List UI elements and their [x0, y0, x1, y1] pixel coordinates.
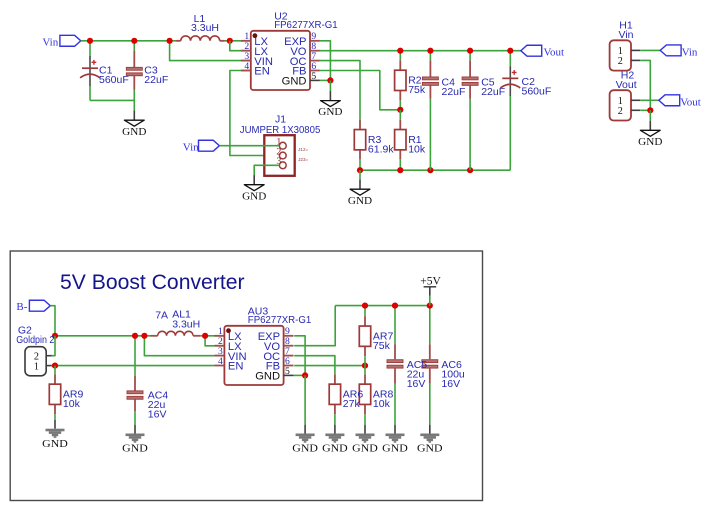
svg-text:560uF: 560uF: [522, 86, 552, 98]
svg-text:75k: 75k: [373, 340, 391, 352]
svg-text:4: 4: [218, 356, 223, 367]
svg-text:2: 2: [618, 106, 623, 117]
svg-text:FP6277XR-G1: FP6277XR-G1: [248, 314, 312, 326]
svg-text:2: 2: [618, 56, 623, 67]
svg-text:B-: B-: [16, 301, 27, 313]
svg-text:16V: 16V: [148, 409, 167, 421]
svg-text:GND: GND: [242, 190, 266, 202]
svg-text:3.3uH: 3.3uH: [172, 319, 200, 331]
svg-text:GND: GND: [122, 126, 146, 138]
svg-text:Vin: Vin: [682, 47, 698, 59]
svg-text:GND: GND: [282, 76, 307, 88]
svg-text:GND: GND: [348, 195, 372, 207]
svg-text:10k: 10k: [373, 398, 391, 410]
svg-text:560uF: 560uF: [99, 74, 129, 86]
svg-text:5: 5: [285, 366, 290, 377]
svg-text:Vin: Vin: [619, 29, 634, 41]
svg-text:4: 4: [244, 61, 249, 72]
svg-text:GND: GND: [292, 443, 318, 455]
svg-text:16V: 16V: [407, 378, 426, 390]
svg-text:Vin: Vin: [183, 141, 199, 153]
svg-text:FP6277XR-G1: FP6277XR-G1: [274, 19, 338, 31]
svg-text:GND: GND: [638, 136, 662, 148]
svg-text:GND: GND: [318, 106, 342, 118]
svg-text:GND: GND: [42, 438, 68, 450]
svg-text:16V: 16V: [441, 378, 460, 390]
svg-text:GND: GND: [122, 443, 148, 455]
svg-text:Vout: Vout: [680, 97, 701, 109]
svg-text:1: 1: [34, 361, 39, 372]
svg-text:GND: GND: [322, 443, 348, 455]
svg-text:10k: 10k: [63, 398, 81, 410]
svg-text:GND: GND: [382, 443, 408, 455]
svg-text:J12=: J12=: [298, 147, 308, 152]
svg-text:22uF: 22uF: [144, 74, 168, 86]
svg-text:10k: 10k: [408, 144, 426, 156]
svg-text:EN: EN: [228, 361, 244, 373]
svg-text:5V Boost Converter: 5V Boost Converter: [60, 271, 245, 294]
svg-text:Vout: Vout: [544, 46, 565, 58]
svg-text:JUMPER 1X30805: JUMPER 1X30805: [240, 124, 321, 136]
svg-text:22uF: 22uF: [442, 86, 466, 98]
svg-text:3.3uH: 3.3uH: [191, 22, 219, 34]
svg-text:61.9k: 61.9k: [368, 144, 394, 156]
svg-text:Vout: Vout: [616, 79, 637, 91]
svg-text:5: 5: [311, 71, 316, 82]
svg-text:27k: 27k: [343, 398, 361, 410]
svg-text:EN: EN: [254, 66, 270, 78]
svg-text:Vin: Vin: [42, 36, 58, 48]
svg-text:+5V: +5V: [420, 275, 441, 287]
svg-text:J23=: J23=: [298, 157, 308, 162]
svg-text:GND: GND: [255, 371, 280, 383]
svg-text:GND: GND: [417, 443, 443, 455]
svg-text:7A: 7A: [155, 310, 168, 322]
svg-text:GND: GND: [352, 443, 378, 455]
svg-text:Goldpin 2: Goldpin 2: [16, 334, 54, 346]
svg-text:75k: 75k: [408, 84, 426, 96]
